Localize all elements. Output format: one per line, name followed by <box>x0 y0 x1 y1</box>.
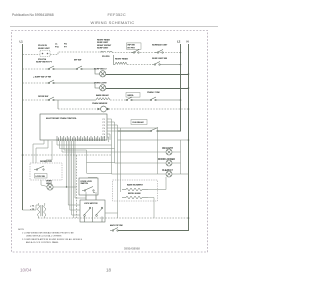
plug P1 <box>40 51 50 57</box>
svg-text:N: N <box>187 40 189 44</box>
svg-text:LOCK SW: LOCK SW <box>36 176 45 178</box>
rung E wire <box>23 99 47 101</box>
rung F wire <box>58 108 189 110</box>
neutral bus wire <box>118 44 189 231</box>
oven light lamp <box>100 85 106 91</box>
svg-text:RIGHT REAR: RIGHT REAR <box>97 39 110 42</box>
wire vertical return <box>76 155 78 218</box>
lamp rung 3 wire <box>112 173 189 175</box>
rung C switch 2 <box>74 66 100 74</box>
svg-text:LOCK MOTOR: LOCK MOTOR <box>84 203 98 205</box>
L1 bus wire <box>22 44 24 210</box>
rung D wire left <box>23 82 47 84</box>
DLB relay contact <box>148 128 158 132</box>
box link wires <box>86 192 96 200</box>
svg-text:RIGHT REAR: RIGHT REAR <box>115 58 128 61</box>
junction feeder to N <box>188 139 190 141</box>
svg-text:SURF SW RT FT: SURF SW RT FT <box>36 61 53 63</box>
broil element R2 <box>122 196 148 199</box>
svg-text:18: 18 <box>106 267 112 272</box>
rung B switch <box>152 62 181 66</box>
rung C wire to N <box>106 74 189 76</box>
junction rung F to N <box>188 108 190 110</box>
svg-text:BAKE ELEMENT: BAKE ELEMENT <box>127 183 144 186</box>
junction bottom to N <box>188 217 190 219</box>
rung E switch 2 <box>124 97 148 101</box>
lock motor box <box>80 200 105 222</box>
svg-text:SURF UNIT: SURF UNIT <box>97 47 109 49</box>
tap wire <box>23 154 112 156</box>
indicator lamp 1 <box>100 71 106 77</box>
right light feeder wire <box>118 139 189 141</box>
junction rung B to L2 <box>180 64 182 66</box>
svg-text:L2: L2 <box>177 40 181 44</box>
svg-text:RT FRT: RT FRT <box>128 47 136 49</box>
rung E wire mid <box>110 99 124 101</box>
svg-text:10/04: 10/04 <box>20 267 32 272</box>
svg-text:NOTE: NOTE <box>18 229 25 231</box>
svg-text:SURFACE UNIT: SURFACE UNIT <box>152 43 168 46</box>
svg-text:ANTI-TIP SW: ANTI-TIP SW <box>110 224 123 227</box>
door lock switch box <box>30 163 62 180</box>
surface unit switch <box>155 50 163 54</box>
rung D wire to N <box>106 88 189 90</box>
light bus vertical <box>157 128 159 174</box>
header rule <box>10 25 218 27</box>
sensor arrows <box>98 108 110 110</box>
svg-text:SURF IND LT: SURF IND LT <box>94 69 107 71</box>
element wires <box>148 177 166 218</box>
L2 lower vertical <box>180 140 182 174</box>
broil switch label <box>126 93 140 98</box>
motor switch 1 <box>84 207 103 222</box>
wire lockbox to lamp <box>41 180 47 186</box>
L2 bus wire <box>118 44 181 131</box>
svg-text:USED WITH A CLOCK ALL OTHERS: USED WITH A CLOCK ALL OTHERS <box>26 235 62 238</box>
svg-text:SURF UNIT: SURF UNIT <box>38 48 50 50</box>
indicator lamp CLEAN <box>166 171 172 177</box>
bake element R1 <box>122 188 148 191</box>
svg-text:BAKE RELAY: BAKE RELAY <box>96 94 109 97</box>
lamp rung 1 wire <box>112 151 181 153</box>
transformer wires <box>23 203 45 218</box>
junction L1 tap <box>22 154 24 156</box>
rung C wire left <box>23 68 47 70</box>
junction rung C to N <box>188 73 190 75</box>
svg-text:SWITCH: SWITCH <box>81 183 89 185</box>
junction rung D to N <box>188 87 190 89</box>
rung C switch 1 <box>46 66 74 70</box>
rung E switch 3 <box>148 97 181 101</box>
svg-text:BROIL ELEM: BROIL ELEM <box>128 193 141 195</box>
door lock relay box <box>79 178 98 195</box>
junction rung A to L2 <box>180 52 182 54</box>
lock switch sub label <box>35 174 48 179</box>
element receptacles <box>101 51 113 52</box>
lamp rung 2 wire <box>115 162 181 164</box>
anti-tip switch <box>110 228 118 232</box>
pin stub wires <box>107 119 158 218</box>
rung D switch <box>46 80 100 88</box>
lamp wire <box>53 186 76 188</box>
note block <box>18 229 83 244</box>
svg-text:1 CONN WIRING SHOWN AS VIEW: 1 CONN WIRING SHOWN AS VIEWED FROM TO BE <box>22 231 74 234</box>
svg-text:5995A58968: 5995A58968 <box>124 246 140 250</box>
relay contact <box>82 187 95 193</box>
rung F step wire <box>57 100 59 109</box>
svg-text:INF SW: INF SW <box>74 59 81 61</box>
svg-text:P19 P20: P19 P20 <box>102 56 109 58</box>
electronic oven control U1 <box>40 114 107 140</box>
oven sensor <box>101 106 107 112</box>
svg-text:DOOR SW: DOOR SW <box>38 96 48 98</box>
schematic outer dashed border <box>12 31 208 253</box>
ribbon wires below control <box>33 140 115 218</box>
indicator lamp ON <box>166 149 172 155</box>
svg-text:+ SURF SW LF RR: + SURF SW LF RR <box>33 76 51 78</box>
DLB relay label <box>131 120 147 125</box>
svg-text:OVEN LT SW: OVEN LT SW <box>147 92 160 94</box>
svg-text:OVEN SENSOR: OVEN SENSOR <box>92 103 108 105</box>
rung B wire <box>127 64 152 66</box>
svg-text:FEF352C: FEF352C <box>108 12 126 17</box>
svg-text:L1: L1 <box>20 40 24 44</box>
infinite switch RF label <box>127 43 142 49</box>
svg-text:Publication No 5995418968: Publication No 5995418968 <box>12 13 54 17</box>
infinite switch RF <box>131 50 139 54</box>
oven lamp <box>47 184 53 190</box>
rung E switch <box>46 97 96 101</box>
transformer T1 <box>38 205 46 216</box>
svg-text:DOOR LOCK: DOOR LOCK <box>40 161 53 163</box>
junction lamp wire <box>66 186 67 187</box>
svg-text:AND A CLOCK CONTROL PANEL: AND A CLOCK CONTROL PANEL <box>26 241 60 244</box>
svg-text:DLB RELAY: DLB RELAY <box>133 121 145 124</box>
rung A wire (surface unit circuit) <box>23 52 181 55</box>
svg-text:OVEN LIGHT: OVEN LIGHT <box>94 83 107 85</box>
ribbon comb pins <box>57 136 105 141</box>
svg-text:ELECTRONIC OVEN CONTROL: ELECTRONIC OVEN CONTROL <box>46 118 77 120</box>
relay coil <box>96 98 110 100</box>
pin labels <box>103 119 106 139</box>
svg-text:2 COMPONENTS APPR IN SILVE: 2 COMPONENTS APPR IN SILVER SUFFIX ON AL… <box>22 238 83 241</box>
elements box <box>113 180 158 201</box>
svg-text:BROIL: BROIL <box>128 95 135 97</box>
svg-text:INF SW: INF SW <box>128 45 135 47</box>
junction rung E to L2 <box>180 99 182 101</box>
ribbon elbow wires to right channel <box>57 141 115 152</box>
indicator lamp LOCK <box>166 160 172 166</box>
bottom rung wire <box>38 217 189 219</box>
svg-text:WIRING SCHEMATIC: WIRING SCHEMATIC <box>91 20 135 25</box>
lock switch <box>34 166 44 170</box>
lock motor exit wire <box>105 212 118 214</box>
svg-text:SURF UNIT SW: SURF UNIT SW <box>152 58 167 60</box>
surface element RR <box>114 55 128 65</box>
